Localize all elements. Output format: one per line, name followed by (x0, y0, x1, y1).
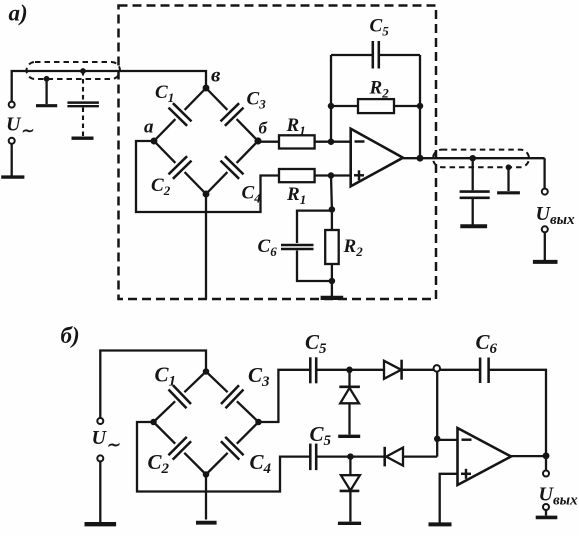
wire dashed to cable capacitance (82, 71, 84, 101)
wire R2 row right (394, 105, 420, 107)
junction output shield ground (506, 164, 512, 170)
capacitor C2 (154, 141, 206, 194)
wire bridge2 bottom to ground (205, 475, 207, 520)
resistor R2 ground leg (325, 230, 339, 264)
wire op-amp output (403, 157, 545, 159)
wire R1 lower to op-amp noninverting input (315, 174, 351, 176)
node bridge2 left (150, 419, 157, 426)
node open circle top row (434, 365, 441, 372)
wire shunt diode lower stem (349, 457, 351, 476)
wire R2 row left (331, 105, 358, 107)
wire dashed capacitance to ground (82, 108, 84, 137)
resistor R1 upper (279, 135, 315, 148)
wire junction to series diode D1 (350, 369, 385, 371)
diode D1 series (384, 360, 402, 380)
input terminal upper b (97, 418, 103, 424)
label C1 bridge2 (155, 363, 177, 390)
wire C6R2 to ground (331, 281, 333, 297)
shield around output wire (dashed) (433, 150, 529, 168)
wire op-amp2 output (511, 455, 546, 457)
wire output terminal b to ground (545, 510, 547, 516)
resistor R2 feedback (358, 99, 394, 113)
junction R2 row left (328, 103, 335, 110)
diode VD2 shunt cathode bar (340, 490, 360, 493)
wire input lower terminal to ground b (99, 461, 101, 522)
node bridge bottom (203, 191, 210, 198)
ground input b (85, 522, 117, 526)
wire node b to upper R1 (258, 141, 279, 143)
wire junction to series diode D2 (350, 455, 384, 457)
ground shield input (36, 104, 57, 107)
input terminal lower (9, 138, 15, 144)
node b (254, 137, 261, 144)
op-amp U1 (351, 129, 403, 187)
wire R1 upper to op-amp inverting input (315, 141, 351, 143)
wire C6 branch bottom (297, 251, 332, 282)
junction output b (543, 452, 550, 459)
wire input lower terminal to ground (11, 144, 13, 176)
capacitor C2 bridge2 (154, 422, 207, 475)
capacitor C1 (154, 88, 206, 141)
ground VD1 (338, 435, 360, 438)
ground noninverting b (429, 522, 452, 526)
ground output shield (497, 191, 520, 194)
capacitor C1 bridge2 (154, 372, 207, 423)
svg-text:в: в (211, 63, 221, 87)
junction cable capacitance (80, 68, 86, 74)
ground output terminal b (536, 516, 558, 520)
capacitor C4 bridge2 (206, 422, 259, 475)
label node a (144, 117, 154, 138)
capacitor C5 upper (310, 357, 316, 383)
wire node a to lower R1 (136, 141, 279, 212)
label C5 feedback (370, 16, 390, 39)
label C1 (155, 82, 174, 105)
ground bridge2 (196, 521, 217, 525)
diode D2 series cathode bar (383, 447, 386, 467)
input terminal upper (9, 102, 15, 108)
capacitor C5 lower (310, 444, 316, 471)
junction C6R2 bottom (329, 278, 336, 285)
ground input a (1, 175, 24, 178)
junction R2 row right (417, 103, 424, 110)
wire shield to ground (45, 79, 47, 104)
wire output terminal to ground (544, 232, 546, 260)
ground output terminal a (533, 260, 558, 264)
label R1 lower (286, 184, 306, 207)
label C5 lower (310, 422, 332, 449)
wire feedback left vertical (330, 55, 332, 142)
capacitor C3 (206, 88, 258, 141)
input terminal lower b (97, 455, 103, 461)
svg-text:а): а) (9, 1, 28, 26)
label Uvyh a (536, 203, 576, 228)
label C6 output b (476, 330, 498, 357)
label U~ input a (6, 114, 33, 140)
wire node circle to C6 (440, 369, 480, 371)
label C4 (242, 183, 262, 206)
wire output capacitor upper (472, 158, 474, 190)
svg-text:б): б) (61, 323, 80, 348)
junction inverting input (328, 138, 335, 145)
label R2 ground leg (343, 236, 364, 259)
capacitor C3 bridge2 (206, 372, 259, 423)
label b) (61, 323, 80, 348)
ground C6R2 (321, 296, 344, 300)
label node v (211, 63, 221, 87)
capacitor C4 (206, 141, 258, 194)
wire output shield to ground (507, 167, 509, 191)
junction C6R2 top (329, 206, 336, 213)
wire input to bridge node v (12, 71, 206, 102)
node a (151, 138, 158, 145)
diode VD1 shunt (340, 388, 359, 403)
wire feedback right vertical (419, 55, 421, 158)
ground output capacitor (460, 224, 487, 228)
label R1 upper (286, 115, 306, 138)
diode VD2 shunt (341, 475, 360, 490)
junction op-amp output (417, 155, 424, 162)
wire noninverting input b to ground (440, 474, 458, 523)
wire output capacitor lower (472, 199, 474, 225)
label C3 (247, 89, 267, 112)
label a) (9, 1, 28, 26)
label C2 (151, 175, 171, 198)
junction shield ground (44, 76, 50, 82)
wire C5 upper to junction (316, 369, 349, 371)
ground VD2 (338, 522, 361, 525)
op-amp U2 (458, 428, 512, 485)
output terminal lower a (542, 226, 548, 232)
label R2 feedback (369, 78, 390, 101)
output terminal upper a (542, 189, 548, 195)
label Uvyh b (539, 484, 579, 509)
capacitor C6 output b (480, 358, 489, 384)
capacitor cable stray plates (67, 103, 99, 107)
wire R2 vertical (331, 210, 333, 282)
output terminal lower b (543, 504, 549, 510)
shield around input wire (dashed) (27, 62, 121, 79)
junction inverting input b (434, 436, 441, 443)
wire D2 to inverting vertical (403, 455, 437, 457)
label C4 bridge2 (250, 450, 272, 477)
wire VD2 to ground (349, 491, 351, 522)
capacitor C5 feedback (373, 41, 379, 69)
junction output filter capacitor (469, 155, 476, 162)
wire output b down (545, 456, 547, 471)
junction shunt diode lower (347, 453, 354, 460)
wire bridge2 left node to lower C5 row (137, 422, 310, 492)
label node b (259, 119, 269, 138)
diode VD1 shunt cathode bar (339, 385, 360, 388)
wire bridge2 right node to upper C5 row (259, 370, 310, 422)
wire D1 to node circle (402, 369, 434, 371)
svg-text:а: а (144, 117, 154, 138)
node bridge2 right (255, 419, 262, 426)
label C6 shunt (258, 236, 278, 259)
node v (203, 85, 210, 92)
output terminal upper b (543, 471, 549, 477)
wire noninverting to C6R2 network (330, 176, 333, 210)
label C3 bridge2 (248, 363, 270, 390)
diode D2 series (386, 448, 403, 466)
wire inverting input b (437, 439, 457, 441)
node bridge2 bottom (203, 471, 210, 478)
wire bridge bottom to shield ground (205, 194, 207, 299)
wire input to bridge2 top (100, 351, 206, 419)
node bridge2 top (203, 368, 210, 375)
wire C6 branch top (297, 211, 332, 243)
resistor R1 lower (279, 169, 315, 182)
wire C5 top feedback (331, 54, 420, 56)
capacitor C6 shunt (281, 245, 314, 249)
wire C5 lower to junction (316, 455, 350, 457)
junction noninverting input (328, 172, 335, 179)
wire inverting vertical b (436, 371, 438, 456)
wire output to terminal (543, 158, 545, 189)
junction shunt diode upper (346, 367, 353, 374)
label U~ input b (92, 427, 120, 454)
wire shunt diode upper stem (348, 370, 350, 386)
wire VD1 to ground (348, 403, 350, 434)
wire C6 to output right vertical (489, 370, 546, 456)
ground cable capacitance (72, 136, 94, 139)
shield box (dashed enclosure) (119, 6, 437, 300)
capacitor output filter plates (460, 192, 490, 198)
label C2 bridge2 (148, 450, 170, 477)
label C5 upper (305, 330, 327, 357)
